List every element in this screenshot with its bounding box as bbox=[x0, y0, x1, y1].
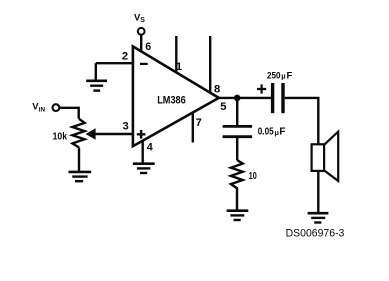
wire pin6 vertical bbox=[140, 35, 142, 53]
svg-text:8: 8 bbox=[214, 84, 220, 96]
wire pin8 bbox=[209, 36, 211, 93]
wire junction to C-bypass bbox=[236, 98, 238, 125]
speaker LS1 bbox=[312, 132, 339, 181]
svg-text:IN: IN bbox=[39, 106, 46, 113]
capacitor C-out 250uF plates bbox=[273, 83, 283, 113]
terminal VS (circle) bbox=[138, 28, 145, 35]
potentiometer R 10k zigzag bbox=[72, 119, 84, 148]
svg-text:2: 2 bbox=[122, 50, 128, 62]
ground (speaker) bbox=[308, 213, 329, 222]
svg-text:5: 5 bbox=[220, 101, 226, 113]
svg-text:0.05: 0.05 bbox=[258, 127, 274, 138]
wire pin1 bbox=[175, 36, 177, 73]
node VIN label bbox=[32, 100, 45, 113]
svg-text:6: 6 bbox=[145, 41, 151, 53]
svg-text:250: 250 bbox=[267, 70, 281, 81]
wiper arrowhead bbox=[86, 128, 96, 139]
plus sign (non-inverting input) bbox=[137, 130, 146, 139]
svg-text:3: 3 bbox=[123, 121, 129, 133]
svg-text:μ: μ bbox=[281, 72, 285, 81]
wire pin2 horizontal bbox=[96, 62, 133, 64]
terminal VIN (circle) bbox=[53, 104, 60, 111]
value label 0.05uF bbox=[258, 127, 286, 138]
ground (pin 4) bbox=[133, 164, 155, 173]
wire pin2 ground drop bbox=[95, 63, 97, 80]
svg-text:S: S bbox=[140, 17, 145, 24]
svg-text:DS006976-3: DS006976-3 bbox=[286, 228, 345, 240]
svg-text:1: 1 bbox=[176, 61, 182, 73]
svg-text:F: F bbox=[287, 71, 293, 82]
svg-text:7: 7 bbox=[196, 117, 202, 129]
wire resistor to ground bbox=[236, 189, 238, 210]
svg-text:LM386: LM386 bbox=[157, 95, 186, 107]
wire output (pin5 to C-out) bbox=[217, 97, 271, 99]
svg-text:4: 4 bbox=[147, 141, 153, 153]
wire C to resistor bbox=[236, 137, 238, 160]
wire speaker to ground bbox=[317, 171, 319, 212]
svg-text:10k: 10k bbox=[53, 132, 68, 143]
resistor R 10 zigzag bbox=[231, 160, 243, 189]
ground (pot) bbox=[69, 172, 92, 181]
plus polarity mark (C-out) bbox=[257, 84, 266, 93]
svg-text:F: F bbox=[279, 127, 285, 138]
capacitor C 0.05uF plates bbox=[223, 126, 253, 136]
junction node dot bbox=[234, 95, 241, 102]
node VS label bbox=[134, 11, 145, 24]
svg-text:10: 10 bbox=[249, 171, 257, 182]
wire pot to ground bbox=[78, 148, 80, 172]
minus sign (inverting input) bbox=[140, 63, 148, 65]
wire wiper to pin 3 bbox=[94, 133, 133, 135]
value label 250uF bbox=[267, 70, 293, 82]
wire pin4 bbox=[141, 140, 143, 163]
wire pin7 bbox=[192, 112, 194, 143]
ground (zobel) bbox=[227, 211, 249, 220]
wire VIN to pot bbox=[60, 108, 79, 119]
wire C-out to speaker bbox=[285, 98, 319, 144]
op-amp U1 LM386 triangle bbox=[133, 46, 219, 146]
ground (pin 2) bbox=[86, 81, 107, 91]
